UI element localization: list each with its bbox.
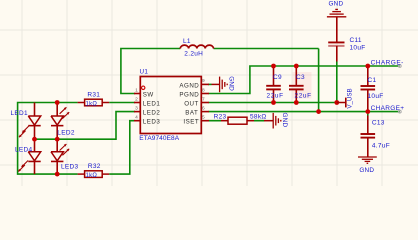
svg-text:LED1: LED1 (11, 110, 29, 117)
svg-text:2.2uH: 2.2uH (184, 51, 203, 58)
svg-text:C9: C9 (273, 74, 282, 81)
svg-text:4: 4 (135, 115, 138, 121)
svg-text:AGND: AGND (179, 82, 199, 89)
svg-text:8: 8 (202, 87, 205, 93)
svg-text:V_USB: V_USB (347, 88, 354, 108)
svg-text:R23: R23 (214, 114, 227, 121)
svg-text:10uF: 10uF (350, 45, 366, 52)
svg-text:R32: R32 (88, 163, 101, 170)
svg-text:1kΩ: 1kΩ (86, 173, 98, 179)
svg-text:L1: L1 (183, 38, 191, 45)
svg-text:6: 6 (202, 105, 205, 111)
svg-text:3: 3 (135, 105, 138, 111)
svg-text:LED3: LED3 (143, 119, 161, 126)
svg-text:22uF: 22uF (267, 93, 284, 100)
svg-text:22uF: 22uF (295, 93, 312, 100)
svg-text:GND: GND (328, 0, 343, 7)
svg-text:LED3: LED3 (61, 164, 79, 171)
svg-text:GND: GND (359, 167, 374, 174)
svg-text:58kΩ: 58kΩ (250, 114, 267, 121)
svg-text:1kΩ: 1kΩ (86, 102, 98, 108)
svg-text:CHARGE+: CHARGE+ (371, 105, 405, 112)
svg-text:C11: C11 (350, 37, 362, 44)
svg-text:LED2: LED2 (57, 129, 75, 136)
svg-text:CHARGE-: CHARGE- (371, 60, 404, 67)
svg-text:R31: R31 (87, 92, 100, 99)
svg-text:LED2: LED2 (143, 110, 161, 117)
svg-text:10uF: 10uF (368, 93, 384, 100)
svg-text:GND: GND (228, 76, 235, 91)
svg-text:BAT: BAT (185, 110, 198, 117)
svg-text:LED4: LED4 (15, 146, 33, 153)
svg-text:C1: C1 (368, 77, 377, 84)
svg-text:1: 1 (135, 87, 138, 93)
svg-text:7: 7 (202, 96, 205, 102)
svg-text:GND: GND (281, 113, 288, 128)
svg-text:C3: C3 (296, 74, 305, 81)
svg-text:PGND: PGND (179, 92, 199, 99)
svg-text:SW: SW (143, 92, 154, 99)
svg-text:OUT: OUT (184, 101, 199, 108)
svg-text:LED1: LED1 (143, 101, 161, 108)
svg-text:C13: C13 (372, 120, 385, 127)
svg-text:ETA9740E8A: ETA9740E8A (139, 135, 179, 142)
svg-text:9: 9 (202, 78, 205, 84)
svg-text:2: 2 (135, 96, 138, 102)
svg-text:5: 5 (202, 115, 205, 121)
svg-text:ISET: ISET (183, 119, 199, 126)
svg-text:4.7uF: 4.7uF (372, 143, 390, 150)
svg-text:U1: U1 (140, 69, 149, 76)
